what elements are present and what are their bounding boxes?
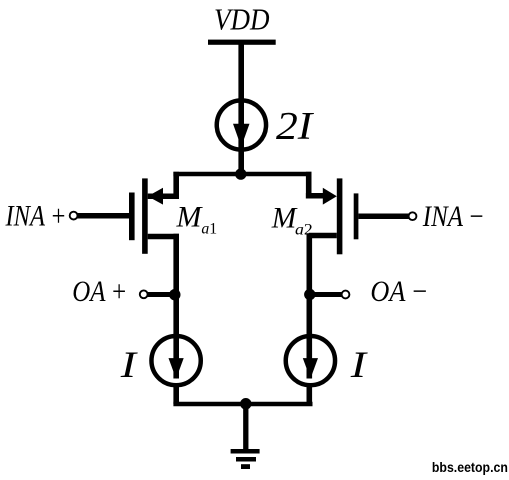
wire Ma1 source lead — [148, 193, 179, 199]
wire Ma1 drain down to bottom rail — [173, 234, 179, 379]
node OA+ junction dot — [169, 289, 180, 300]
VDD supply rail — [208, 40, 276, 45]
terminal OA+ — [140, 290, 148, 298]
wire Ma2 drain down to bottom rail — [306, 234, 312, 379]
svg-text:I: I — [120, 345, 138, 386]
wire Ma2 source lead — [306, 193, 324, 199]
wire OA- stub — [309, 292, 343, 297]
wire bottom rail — [173, 402, 312, 407]
terminal INA- — [409, 212, 417, 220]
Ma1 gate bar — [129, 193, 135, 241]
wire tail rail (sources of Ma1/Ma2) — [173, 172, 311, 177]
transistor Q Ma2 — [323, 178, 359, 254]
wire ground stem — [243, 404, 248, 452]
svg-text:I: I — [350, 345, 368, 386]
label Ma1 — [176, 201, 218, 238]
Ma2 gate bar — [354, 193, 359, 239]
svg-text:M: M — [176, 201, 204, 234]
Ma2 source arrow — [323, 188, 337, 205]
wire Ma1 drain lead — [148, 234, 179, 240]
Ma1 channel bar — [142, 178, 148, 253]
svg-text:2I: 2I — [276, 105, 315, 148]
junction ground node — [240, 398, 252, 410]
svg-text:OA −: OA − — [370, 275, 428, 308]
node OA- junction dot — [304, 289, 315, 300]
svg-text:a2: a2 — [295, 221, 313, 238]
svg-text:VDD: VDD — [214, 3, 270, 37]
svg-text:a1: a1 — [201, 221, 217, 238]
wire VDD rail to current source 2I and tail node — [238, 44, 244, 174]
junction tail node — [235, 168, 246, 179]
Ma1 source arrow — [148, 188, 163, 205]
ground symbol — [231, 449, 260, 469]
label Ma2 — [271, 202, 313, 239]
wire Ma2 drain lead — [309, 233, 337, 239]
svg-text:OA +: OA + — [72, 275, 127, 308]
wire right source corner vertical — [306, 172, 312, 199]
svg-text:INA −: INA − — [422, 200, 485, 233]
current source I (right) — [286, 336, 335, 385]
transistor Q Ma1 — [129, 178, 163, 253]
Ma2 channel bar — [337, 178, 343, 254]
current source 2I — [217, 100, 266, 149]
wire OA+ stub — [146, 292, 176, 297]
svg-text:bbs.eetop.cn: bbs.eetop.cn — [432, 459, 508, 475]
wire INA+ gate lead — [77, 213, 129, 219]
current source I (left) — [151, 336, 200, 385]
terminal INA+ — [70, 212, 78, 220]
wire INA- gate lead — [358, 213, 408, 219]
terminal OA- — [342, 291, 350, 299]
svg-text:INA +: INA + — [5, 199, 67, 232]
wire left source corner vertical — [173, 172, 179, 199]
